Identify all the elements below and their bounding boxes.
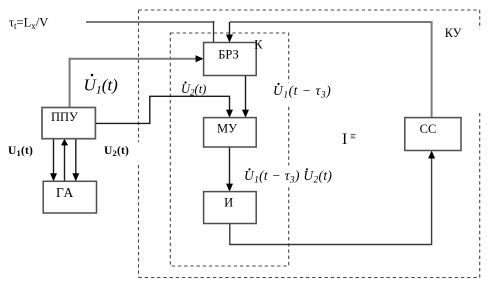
outer dashed boundary КУ (139, 10, 480, 278)
block СС (405, 118, 461, 151)
svg-text:СС: СС (420, 122, 437, 136)
svg-text:ППУ: ППУ (51, 110, 78, 124)
block ППУ (42, 108, 95, 139)
wire ППУ-ГА left down (53, 139, 55, 180)
wire U1(t) from ППУ to БРЗ (70, 59, 202, 108)
svg-text:U2(t): U2(t) (181, 82, 206, 98)
svg-text:КУ: КУ (445, 26, 462, 40)
inner dashed boundary (170, 33, 288, 266)
svg-text:ГА: ГА (56, 185, 74, 200)
wire И to СС (230, 152, 432, 245)
wire drop into БРЗ (229, 22, 231, 41)
svg-text:U2(t): U2(t) (104, 145, 129, 158)
block И (204, 192, 257, 224)
wire ГА-ППУ up (64, 140, 66, 181)
block МУ (204, 118, 257, 147)
block ГА (43, 181, 96, 213)
wire МУ to И (229, 147, 231, 190)
wire БРЗ to МУ (245, 76, 247, 117)
svg-text:U1(t): U1(t) (84, 76, 119, 97)
svg-text:И: И (224, 195, 233, 209)
svg-text:БРЗ: БРЗ (218, 48, 239, 62)
wire U2(t) from ППУ to МУ (95, 96, 229, 123)
svg-text:МУ: МУ (217, 122, 237, 136)
wire top line to CC (230, 22, 432, 118)
svg-text:I: I (342, 131, 347, 148)
wire tau input top line (86, 21, 214, 23)
svg-text:U1(t): U1(t) (8, 145, 33, 158)
wire ППУ-ГА right down (75, 139, 77, 180)
block БРЗ (204, 43, 257, 76)
svg-text:К: К (254, 38, 263, 52)
